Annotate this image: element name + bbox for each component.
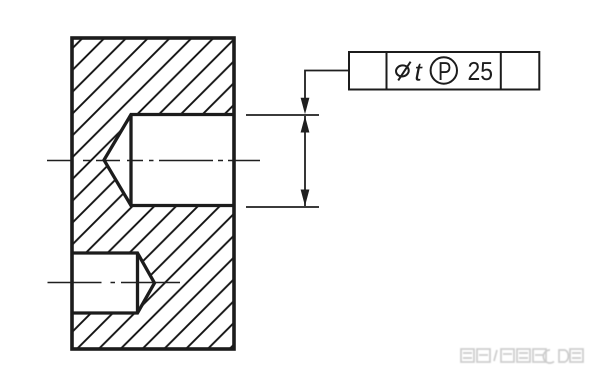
frame divider 1 [386, 52, 388, 90]
lower hole centerline [48, 282, 181, 284]
upper hole cone base line [129, 115, 132, 206]
dimension line with arrows [304, 116, 306, 206]
watermark zhihu [461, 349, 583, 363]
circled P modifier [431, 57, 457, 83]
upper hole outline [104, 115, 234, 206]
diameter symbol [395, 62, 411, 81]
arrow up [301, 116, 310, 133]
svg-text:25: 25 [468, 56, 494, 86]
lower hole cone base line [136, 253, 139, 313]
extension line bottom [246, 206, 319, 208]
block outline (section view) [72, 38, 234, 349]
lower hole outline [72, 253, 155, 313]
arrow down [301, 190, 310, 207]
leader from tolerance frame [305, 71, 349, 101]
frame divider 2 [500, 52, 502, 90]
feature control frame [349, 52, 539, 90]
extension line top [246, 114, 319, 116]
svg-text:t: t [415, 57, 424, 87]
leader arrow down [301, 98, 310, 115]
hatched section area (block minus holes) [72, 38, 234, 349]
upper hole centerline [47, 160, 260, 162]
svg-text:P: P [438, 56, 452, 86]
